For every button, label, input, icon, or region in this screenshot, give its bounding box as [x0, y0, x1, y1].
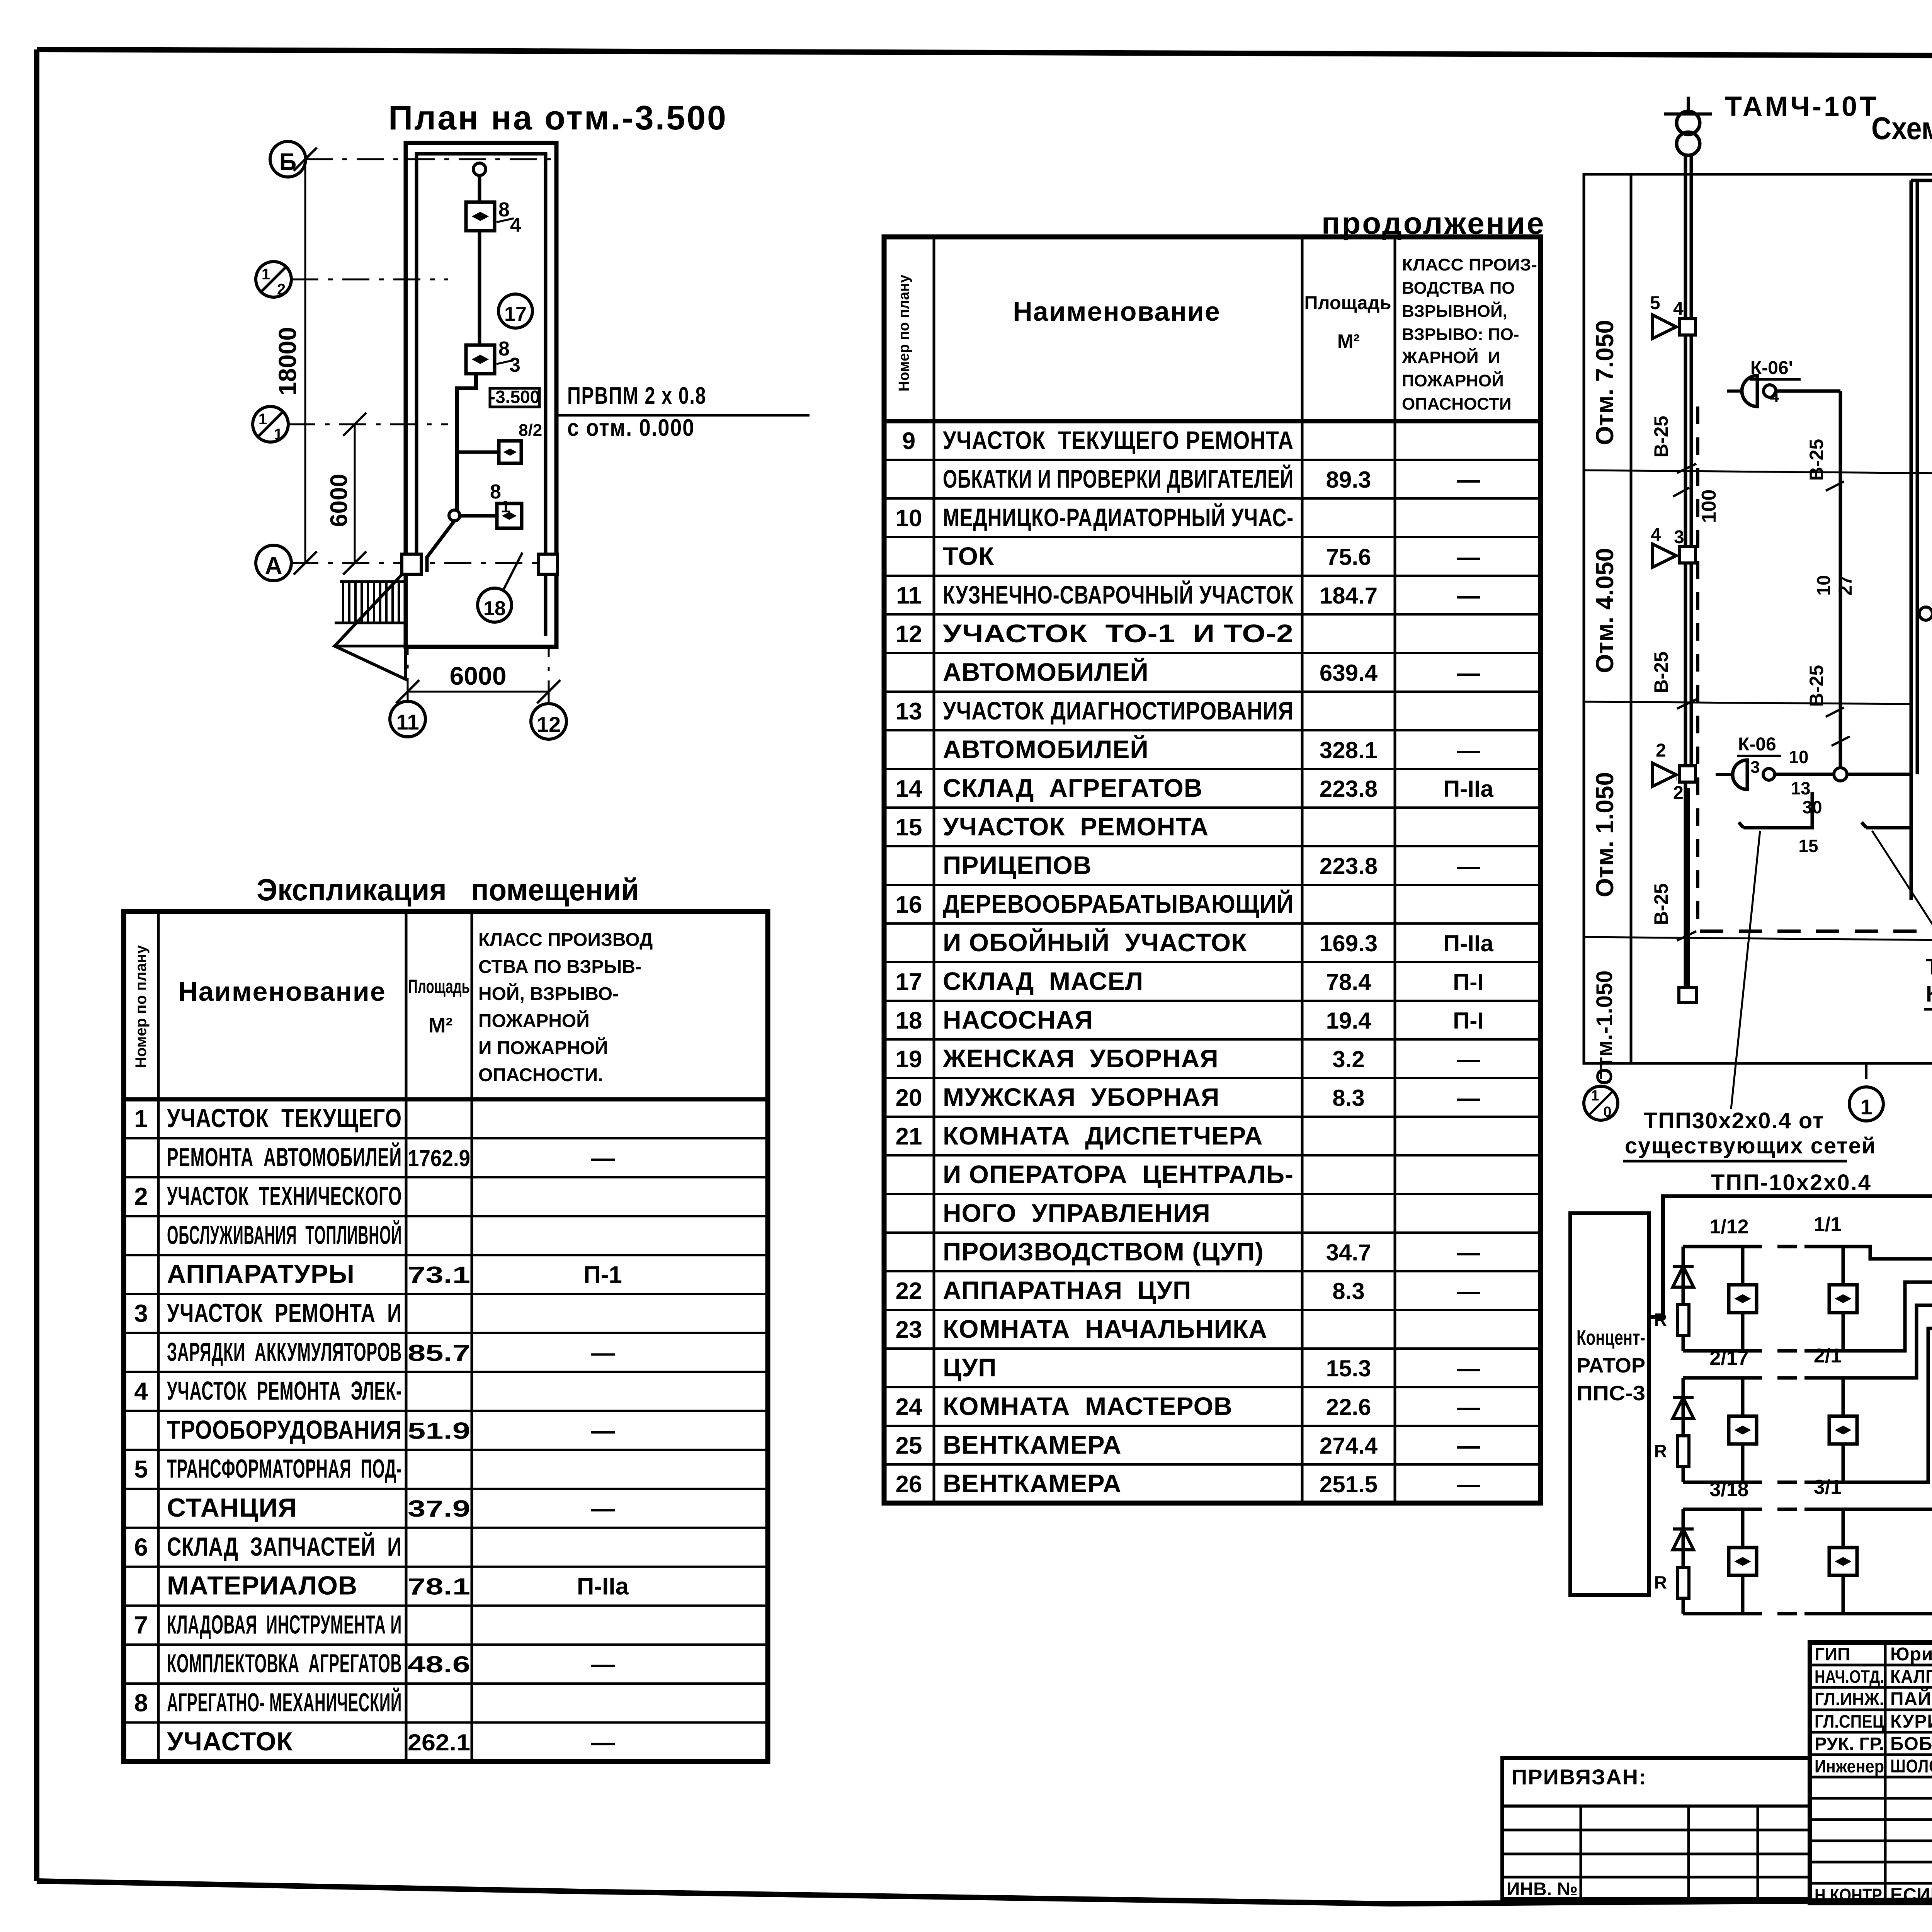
axis line Б	[306, 158, 556, 160]
svg-text:Схема расположения сетей связ: Схема расположения сетей связи и сигнали…	[1871, 111, 1932, 146]
stamp signature table	[1810, 1643, 1932, 1903]
top bus wire to node	[1649, 1196, 1932, 1317]
svg-text:УЧАСТОК РЕМОНТА ЭЛЕК-: УЧАСТОК РЕМОНТА ЭЛЕК-	[167, 1376, 402, 1406]
svg-text:—: —	[591, 1340, 615, 1366]
svg-text:УЧАСТОК: УЧАСТОК	[167, 1727, 293, 1756]
svg-text:НАЧ.ОТД.: НАЧ.ОТД.	[1815, 1667, 1884, 1687]
svg-text:2: 2	[1673, 783, 1684, 803]
svg-text:КОМНАТА ДИСПЕТЧЕРА: КОМНАТА ДИСПЕТЧЕРА	[943, 1121, 1263, 1150]
svg-text:262.1: 262.1	[408, 1730, 470, 1755]
speaker on feeder level 1	[1653, 763, 1676, 786]
svg-text:274.4: 274.4	[1320, 1433, 1378, 1459]
svg-text:Площадь: Площадь	[1304, 293, 1391, 313]
svg-text:Юрин: Юрин	[1890, 1644, 1932, 1665]
branch to 8/1	[460, 514, 500, 518]
detector box 8/1	[497, 503, 522, 528]
svg-text:П-I: П-I	[1453, 1008, 1484, 1034]
svg-text:4: 4	[1770, 387, 1779, 406]
svg-text:ТПП-10х2х0.4: ТПП-10х2х0.4	[1711, 1170, 1872, 1195]
svg-text:26: 26	[896, 1471, 922, 1498]
svg-text:Отм. 1.050: Отм. 1.050	[1591, 772, 1619, 897]
speaker on feeder level 7	[1679, 319, 1696, 335]
svg-text:ПОЖАРНОЙ: ПОЖАРНОЙ	[1402, 371, 1504, 390]
svg-text:И ПОЖАРНОЙ: И ПОЖАРНОЙ	[478, 1037, 608, 1058]
svg-text:4: 4	[510, 214, 521, 236]
svg-text:ВЗРЫВНОЙ,: ВЗРЫВНОЙ,	[1402, 301, 1507, 321]
svg-text:ЦУП: ЦУП	[943, 1353, 997, 1382]
svg-text:П-IIа: П-IIа	[1443, 776, 1493, 802]
svg-text:—: —	[1457, 1394, 1480, 1420]
main horizontal bus 2	[1917, 612, 1932, 616]
svg-text:КОМНАТА МАСТЕРОВ: КОМНАТА МАСТЕРОВ	[943, 1392, 1233, 1420]
stub hooks with cable note	[1739, 822, 1770, 828]
svg-text:К-06: К-06	[1738, 734, 1776, 755]
svg-text:22.6: 22.6	[1326, 1394, 1371, 1420]
svg-text:30: 30	[1802, 797, 1822, 817]
svg-text:3: 3	[1750, 758, 1760, 777]
level divider 4.050/1.050	[1584, 702, 1911, 704]
axis circle 1/0	[1584, 1086, 1618, 1120]
svg-text:КАЛГАНОВ: КАЛГАНОВ	[1890, 1667, 1932, 1687]
privyazan table	[1502, 1758, 1810, 1899]
feeder end box	[1679, 987, 1697, 1003]
svg-text:—: —	[1457, 1085, 1480, 1111]
stair ramp diagonals	[335, 568, 408, 679]
svg-text:Номер по плану: Номер по плану	[896, 275, 912, 391]
svg-text:75.6: 75.6	[1326, 544, 1371, 570]
svg-text:ВЕНТКАМЕРА: ВЕНТКАМЕРА	[943, 1430, 1122, 1459]
svg-text:17: 17	[896, 969, 922, 995]
svg-text:с отм. 0.000: с отм. 0.000	[567, 415, 695, 441]
svg-text:ШОЛОХОВА: ШОЛОХОВА	[1890, 1756, 1932, 1777]
drop from node to wall	[427, 521, 454, 572]
axis circle 1	[1849, 1087, 1883, 1121]
transformer ТАМЧ	[1677, 111, 1700, 134]
svg-text:8.3: 8.3	[1332, 1085, 1364, 1111]
detector box 8/4	[466, 202, 495, 231]
svg-text:—: —	[591, 1145, 615, 1172]
axis circle 1/2	[256, 262, 291, 297]
left group stepped wires to KC-10 block1	[1843, 1247, 1932, 1259]
svg-text:П-I: П-I	[1453, 969, 1484, 995]
building outline outer	[406, 143, 556, 647]
svg-text:П-1: П-1	[583, 1262, 622, 1288]
svg-text:—: —	[1457, 1471, 1480, 1497]
svg-text:НОЙ, ВЗРЫВО-: НОЙ, ВЗРЫВО-	[478, 983, 619, 1004]
vertical branch line	[1839, 391, 1842, 774]
svg-text:1/12: 1/12	[1709, 1216, 1748, 1238]
wire	[478, 175, 481, 204]
building top	[1911, 179, 1932, 182]
svg-text:—: —	[1457, 1278, 1480, 1304]
svg-text:КОМПЛЕКТОВКА АГРЕГАТОВ: КОМПЛЕКТОВКА АГРЕГАТОВ	[167, 1649, 402, 1678]
svg-text:НАСОСНАЯ: НАСОСНАЯ	[943, 1005, 1093, 1034]
svg-text:ТРООБОРУДОВАНИЯ: ТРООБОРУДОВАНИЯ	[167, 1415, 402, 1444]
svg-text:R: R	[1654, 1572, 1667, 1592]
svg-text:—: —	[1457, 1355, 1480, 1381]
axis circle Б	[270, 141, 306, 177]
svg-text:Концент-: Концент-	[1577, 1326, 1645, 1349]
horn К-06pr	[1742, 376, 1757, 406]
branch to 8/2	[457, 451, 501, 454]
svg-text:НОГО УПРАВЛЕНИЯ: НОГО УПРАВЛЕНИЯ	[943, 1199, 1211, 1227]
svg-text:8.3: 8.3	[1332, 1278, 1364, 1304]
svg-text:АГРЕГАТНО- МЕХАНИЧЕСКИЙ: АГРЕГАТНО- МЕХАНИЧЕСКИЙ	[167, 1687, 402, 1717]
svg-text:ЖЕНСКАЯ УБОРНАЯ: ЖЕНСКАЯ УБОРНАЯ	[942, 1044, 1219, 1073]
svg-text:ВЕНТКАМЕРА: ВЕНТКАМЕРА	[943, 1469, 1122, 1498]
svg-text:ЕСИНА: ЕСИНА	[1890, 1885, 1932, 1905]
svg-text:П-IIа: П-IIа	[1443, 930, 1493, 956]
svg-text:0: 0	[1603, 1104, 1611, 1120]
svg-text:2: 2	[1656, 740, 1666, 761]
horn К-06 lower	[1676, 775, 1677, 781]
svg-text:—: —	[591, 1651, 615, 1678]
svg-text:К-06': К-06'	[1750, 358, 1793, 378]
detector box 8/2	[499, 441, 521, 463]
svg-text:13: 13	[896, 698, 922, 725]
svg-text:ВОДСТВА ПО: ВОДСТВА ПО	[1402, 279, 1515, 298]
svg-text:ТРАНСФОРМАТОРНАЯ ПОД-: ТРАНСФОРМАТОРНАЯ ПОД-	[167, 1454, 402, 1483]
main feeder double line	[1684, 155, 1687, 989]
svg-text:23: 23	[896, 1316, 922, 1343]
svg-text:8: 8	[498, 199, 510, 221]
svg-text:СТАНЦИЯ: СТАНЦИЯ	[167, 1493, 297, 1522]
svg-text:УЧАСТОК ТЕХНИЧЕСКОГО: УЧАСТОК ТЕХНИЧЕСКОГО	[167, 1182, 402, 1211]
svg-text:ИНВ. №: ИНВ. №	[1507, 1879, 1578, 1900]
svg-text:УЧАСТОК РЕМОНТА И: УЧАСТОК РЕМОНТА И	[167, 1298, 402, 1328]
svg-text:1: 1	[134, 1105, 148, 1133]
svg-text:существующих сетей: существующих сетей	[1625, 1133, 1876, 1158]
feeder dashed companion	[1696, 406, 1699, 927]
svg-text:Б: Б	[279, 149, 297, 175]
svg-text:1: 1	[1591, 1088, 1599, 1104]
svg-text:МУЖСКАЯ УБОРНАЯ: МУЖСКАЯ УБОРНАЯ	[943, 1083, 1219, 1111]
svg-text:223.8: 223.8	[1320, 776, 1378, 802]
svg-text:17: 17	[504, 303, 527, 325]
svg-text:СКЛАД ЗАПЧАСТЕЙ И: СКЛАД ЗАПЧАСТЕЙ И	[167, 1532, 402, 1561]
bottom dashed long run	[1700, 930, 1932, 933]
svg-text:1: 1	[1860, 1095, 1872, 1119]
svg-text:8/2: 8/2	[519, 421, 542, 440]
dimension line 18000	[304, 159, 306, 563]
svg-text:78.1: 78.1	[408, 1574, 470, 1600]
svg-text:13: 13	[1791, 778, 1810, 798]
svg-text:11: 11	[396, 710, 419, 734]
svg-text:73.1: 73.1	[408, 1262, 470, 1288]
level divider 7.050/4.050	[1584, 470, 1932, 479]
svg-text:ГИП: ГИП	[1815, 1644, 1850, 1664]
svg-text:—: —	[1457, 1046, 1480, 1072]
svg-text:5: 5	[134, 1455, 148, 1483]
level divider 1.050/-1.050	[1584, 937, 1932, 946]
svg-text:ГЛ.СПЕЦ: ГЛ.СПЕЦ	[1815, 1711, 1884, 1731]
svg-text:ПРИВЯЗАН:: ПРИВЯЗАН:	[1512, 1765, 1647, 1789]
svg-text:169.3: 169.3	[1320, 930, 1378, 956]
node	[449, 510, 460, 521]
left strip divider	[1630, 174, 1633, 1063]
svg-text:Отм. 4.050: Отм. 4.050	[1591, 548, 1619, 673]
feeder lower single	[1687, 788, 1690, 989]
svg-text:АППАРАТУРЫ: АППАРАТУРЫ	[167, 1259, 355, 1289]
svg-text:37.9: 37.9	[408, 1496, 470, 1522]
svg-text:25: 25	[896, 1432, 922, 1459]
svg-text:1: 1	[262, 266, 270, 283]
svg-text:4: 4	[134, 1378, 148, 1405]
svg-text:АППАРАТНАЯ ЦУП: АППАРАТНАЯ ЦУП	[943, 1276, 1191, 1304]
svg-text:15.3: 15.3	[1326, 1355, 1371, 1381]
svg-text:В-25: В-25	[1650, 651, 1672, 693]
svg-text:10: 10	[1814, 575, 1834, 595]
wire	[478, 231, 481, 347]
svg-text:ППС-3: ППС-3	[1577, 1382, 1645, 1405]
svg-text:ПРОИЗВОДСТВОМ (ЦУП): ПРОИЗВОДСТВОМ (ЦУП)	[943, 1237, 1264, 1266]
svg-text:—: —	[1457, 544, 1480, 570]
svg-text:План на отм.-3.500: План на отм.-3.500	[388, 99, 728, 137]
svg-text:И ОБОЙНЫЙ УЧАСТОК: И ОБОЙНЫЙ УЧАСТОК	[943, 928, 1247, 957]
svg-text:М²: М²	[1337, 330, 1360, 352]
svg-text:Экспликация помещений: Экспликация помещений	[257, 872, 639, 907]
svg-text:15: 15	[896, 814, 922, 841]
svg-text:1/1: 1/1	[1814, 1213, 1842, 1236]
svg-text:85.7: 85.7	[408, 1340, 470, 1366]
svg-text:Отм. 7.050: Отм. 7.050	[1591, 320, 1619, 445]
svg-text:48.6: 48.6	[408, 1651, 470, 1677]
svg-text:R: R	[1654, 1441, 1667, 1461]
svg-text:—: —	[1457, 467, 1480, 493]
svg-text:РАТОР: РАТОР	[1577, 1354, 1645, 1377]
svg-text:10: 10	[896, 505, 922, 532]
axis circle 1/1	[253, 406, 288, 442]
svg-text:1: 1	[259, 411, 267, 428]
svg-text:—: —	[1457, 1433, 1480, 1459]
svg-text:34.7: 34.7	[1326, 1240, 1371, 1265]
building inner wall	[417, 154, 546, 636]
svg-text:—: —	[591, 1495, 615, 1522]
svg-text:19: 19	[896, 1046, 922, 1073]
svg-text:КОМНАТА НАЧАЛЬНИКА: КОМНАТА НАЧАЛЬНИКА	[943, 1315, 1267, 1343]
svg-text:—: —	[1457, 853, 1480, 879]
svg-text:ПРИЦЕПОВ: ПРИЦЕПОВ	[943, 851, 1092, 879]
КС-10 left symbol	[1919, 607, 1932, 620]
svg-text:12: 12	[537, 712, 561, 736]
svg-text:R: R	[1654, 1310, 1667, 1330]
svg-text:ОБСЛУЖИВАНИЯ ТОПЛИВНОЙ: ОБСЛУЖИВАНИЯ ТОПЛИВНОЙ	[167, 1220, 402, 1250]
svg-text:ГЛ.ИНЖ.: ГЛ.ИНЖ.	[1815, 1689, 1884, 1709]
svg-text:3/1: 3/1	[1814, 1476, 1842, 1498]
svg-text:3: 3	[509, 354, 520, 376]
svg-text:4: 4	[1673, 299, 1684, 319]
svg-text:12: 12	[896, 621, 922, 648]
svg-text:8: 8	[490, 481, 501, 503]
svg-text:ТОК: ТОК	[943, 542, 994, 570]
svg-text:10: 10	[1789, 747, 1808, 767]
svg-text:11: 11	[896, 582, 922, 609]
svg-text:2: 2	[277, 281, 286, 298]
svg-text:ОПАСНОСТИ: ОПАСНОСТИ	[1402, 395, 1512, 413]
svg-text:МЕДНИЦКО-РАДИАТОРНЫЙ УЧАС-: МЕДНИЦКО-РАДИАТОРНЫЙ УЧАС-	[943, 503, 1294, 532]
svg-text:ПОЖАРНОЙ: ПОЖАРНОЙ	[478, 1010, 590, 1031]
svg-text:3: 3	[1674, 527, 1684, 548]
svg-text:3.2: 3.2	[1332, 1046, 1364, 1072]
svg-text:СТВА ПО ВЗРЫВ-: СТВА ПО ВЗРЫВ-	[478, 957, 641, 977]
svg-text:УЧАСТОК ДИАГНОСТИРОВАНИЯ: УЧАСТОК ДИАГНОСТИРОВАНИЯ	[943, 696, 1294, 725]
svg-text:639.4: 639.4	[1320, 660, 1378, 686]
svg-text:БОБРОВА: БОБРОВА	[1890, 1734, 1932, 1754]
axis circle А	[256, 545, 291, 581]
svg-text:2/17: 2/17	[1709, 1347, 1748, 1369]
svg-text:251.5: 251.5	[1320, 1471, 1378, 1497]
stairs	[340, 580, 406, 583]
svg-text:—: —	[1457, 583, 1480, 609]
svg-text:МАТЕРИАЛОВ: МАТЕРИАЛОВ	[167, 1571, 357, 1600]
riser cable top circle	[473, 163, 486, 175]
svg-text:51.9: 51.9	[408, 1418, 470, 1444]
svg-text:3/18: 3/18	[1709, 1478, 1748, 1501]
svg-text:4: 4	[1651, 525, 1661, 545]
svg-text:КЛАСС ПРОИЗВОД: КЛАСС ПРОИЗВОД	[478, 930, 653, 950]
building wall left double	[1910, 180, 1913, 900]
axis circle 11	[390, 701, 425, 737]
axis circle 12	[531, 704, 566, 739]
speaker on feeder level 4	[1653, 544, 1676, 567]
svg-text:5: 5	[1650, 293, 1660, 313]
svg-text:27: 27	[1835, 575, 1856, 595]
svg-text:Н.КОНТР.: Н.КОНТР.	[1815, 1885, 1884, 1905]
svg-text:И ОПЕРАТОРА ЦЕНТРАЛЬ-: И ОПЕРАТОРА ЦЕНТРАЛЬ-	[943, 1160, 1294, 1189]
svg-text:ТПП10х2х0.4 от: ТПП10х2х0.4 от	[1926, 954, 1932, 980]
svg-text:19.4: 19.4	[1326, 1008, 1371, 1034]
detector box 8/3	[466, 345, 495, 374]
svg-text:КЛАДОВАЯ ИНСТРУМЕНТА И: КЛАДОВАЯ ИНСТРУМЕНТА И	[167, 1610, 402, 1639]
svg-text:—: —	[591, 1417, 615, 1444]
svg-text:18: 18	[896, 1007, 922, 1034]
svg-text:В-25: В-25	[1650, 416, 1672, 457]
svg-text:1: 1	[501, 497, 510, 516]
svg-text:100: 100	[1698, 490, 1720, 523]
svg-text:КЛАСС ПРОИЗ-: КЛАСС ПРОИЗ-	[1402, 255, 1537, 274]
svg-text:УЧАСТОК ТО-1 И ТО-2: УЧАСТОК ТО-1 И ТО-2	[943, 619, 1294, 648]
svg-text:КУРИЦЫН: КУРИЦЫН	[1890, 1711, 1932, 1732]
svg-text:3: 3	[134, 1299, 148, 1327]
svg-text:—: —	[1457, 1240, 1480, 1265]
concentrator box	[1570, 1213, 1649, 1595]
svg-text:78.4: 78.4	[1326, 969, 1371, 995]
dimension line 6000 bottom	[407, 647, 409, 701]
svg-text:-3.500: -3.500	[490, 387, 540, 407]
svg-text:Наименование: Наименование	[1013, 296, 1221, 327]
dimension line 6000 vertical	[354, 424, 356, 563]
svg-text:ВЗРЫВО: ПО-: ВЗРЫВО: ПО-	[1402, 325, 1519, 344]
svg-text:ПАЙКИН: ПАЙКИН	[1890, 1688, 1932, 1709]
svg-text:—: —	[1457, 660, 1480, 686]
svg-text:П-IIа: П-IIа	[577, 1573, 629, 1600]
svg-text:Площадь: Площадь	[408, 976, 470, 997]
riser jog down-left	[457, 374, 476, 515]
svg-text:Отм.-1.050: Отм.-1.050	[1592, 971, 1617, 1085]
svg-text:ТАМЧ-10Т: ТАМЧ-10Т	[1725, 91, 1879, 122]
svg-text:Инженер: Инженер	[1815, 1756, 1884, 1776]
svg-text:Наименование: Наименование	[178, 976, 386, 1007]
svg-text:2: 2	[134, 1183, 148, 1211]
svg-text:ОПАСНОСТИ.: ОПАСНОСТИ.	[478, 1065, 603, 1085]
wall blob right	[538, 554, 558, 574]
svg-text:16: 16	[896, 891, 922, 918]
svg-text:—: —	[1457, 737, 1480, 763]
room label 18	[478, 588, 512, 622]
svg-text:СКЛАД МАСЕЛ: СКЛАД МАСЕЛ	[943, 967, 1143, 995]
svg-text:18000: 18000	[274, 327, 301, 396]
svg-text:2/1: 2/1	[1814, 1345, 1842, 1367]
left table grid	[124, 912, 768, 1762]
svg-text:АВТОМОБИЛЕЙ: АВТОМОБИЛЕЙ	[943, 657, 1149, 686]
svg-text:1762.9: 1762.9	[408, 1145, 470, 1171]
svg-text:М²: М²	[429, 1014, 453, 1037]
svg-text:1: 1	[274, 426, 282, 443]
svg-text:АВТОМОБИЛЕЙ: АВТОМОБИЛЕЙ	[943, 735, 1149, 764]
level label -3.500 box	[490, 388, 539, 407]
svg-text:89.3: 89.3	[1326, 467, 1371, 493]
svg-text:20: 20	[896, 1085, 922, 1111]
svg-text:21: 21	[896, 1123, 922, 1150]
svg-text:РУК. ГР.: РУК. ГР.	[1815, 1734, 1884, 1754]
svg-text:ДЕРЕВООБРАБАТЫВАЮЩИЙ: ДЕРЕВООБРАБАТЫВАЮЩИЙ	[943, 889, 1294, 918]
sheet border frame	[37, 49, 1932, 58]
schematic frame	[1584, 174, 1932, 1063]
svg-text:184.7: 184.7	[1320, 583, 1378, 609]
svg-text:8: 8	[134, 1689, 148, 1717]
svg-text:А: А	[265, 553, 282, 579]
svg-text:6: 6	[134, 1533, 148, 1561]
svg-text:15: 15	[1798, 836, 1818, 856]
svg-text:22: 22	[896, 1278, 922, 1304]
svg-text:ЖАРНОЙ И: ЖАРНОЙ И	[1401, 347, 1500, 367]
svg-text:ТПП30х2х0.4 от: ТПП30х2х0.4 от	[1644, 1108, 1824, 1133]
svg-text:223.8: 223.8	[1320, 853, 1378, 879]
svg-text:—: —	[591, 1729, 615, 1756]
svg-text:6000: 6000	[326, 474, 352, 527]
svg-text:В-25: В-25	[1806, 665, 1827, 707]
svg-text:18: 18	[483, 597, 506, 620]
svg-text:ПРВПМ 2 х 0.8: ПРВПМ 2 х 0.8	[567, 383, 706, 409]
room label 17	[498, 294, 532, 328]
svg-text:УЧАСТОК ТЕКУЩЕГО: УЧАСТОК ТЕКУЩЕГО	[167, 1104, 402, 1133]
svg-text:14: 14	[896, 776, 922, 802]
svg-text:ОБКАТКИ И ПРОВЕРКИ ДВИГАТЕЛЕЙ: ОБКАТКИ И ПРОВЕРКИ ДВИГАТЕЛЕЙ	[943, 464, 1294, 493]
svg-text:8: 8	[498, 338, 510, 360]
svg-text:ЗАРЯДКИ АККУМУЛЯТОРОВ: ЗАРЯДКИ АККУМУЛЯТОРОВ	[167, 1337, 402, 1367]
svg-text:РЕМОНТА АВТОМОБИЛЕЙ: РЕМОНТА АВТОМОБИЛЕЙ	[167, 1142, 402, 1172]
svg-text:7: 7	[134, 1611, 148, 1639]
wall blob left	[402, 554, 421, 574]
svg-text:9: 9	[902, 428, 915, 454]
svg-text:УЧАСТОК РЕМОНТА: УЧАСТОК РЕМОНТА	[943, 812, 1209, 841]
svg-text:КОНЦЕНТРАТОРА ППС-3: КОНЦЕНТРАТОРА ППС-3	[1926, 981, 1932, 1007]
svg-text:КУЗНЕЧНО-СВАРОЧНЫЙ УЧАСТОК: КУЗНЕЧНО-СВАРОЧНЫЙ УЧАСТОК	[943, 580, 1294, 609]
svg-text:Номер по плану: Номер по плану	[133, 945, 150, 1068]
svg-text:328.1: 328.1	[1320, 737, 1378, 763]
middle table grid	[884, 237, 1541, 1503]
svg-text:24: 24	[896, 1394, 922, 1420]
svg-text:УЧАСТОК ТЕКУЩЕГО РЕМОНТА: УЧАСТОК ТЕКУЩЕГО РЕМОНТА	[943, 426, 1294, 454]
svg-text:В-25: В-25	[1650, 883, 1672, 925]
svg-text:В-25: В-25	[1806, 439, 1827, 481]
leader lines to notes	[1731, 831, 1760, 1109]
svg-text:СКЛАД АГРЕГАТОВ: СКЛАД АГРЕГАТОВ	[943, 774, 1203, 802]
svg-text:6000: 6000	[450, 662, 507, 690]
